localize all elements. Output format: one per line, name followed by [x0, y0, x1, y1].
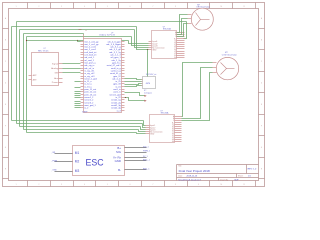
- svg-text:V+ Rx: V+ Rx: [113, 155, 122, 159]
- svg-text:F: F: [261, 125, 262, 127]
- svg-text:H: H: [5, 168, 6, 170]
- svg-text:⌞: ⌞: [51, 152, 52, 154]
- svg-text:M?: M?: [225, 52, 228, 54]
- wire bus b2 bottom: [17, 122, 143, 125]
- svg-text:G1: G1: [174, 47, 176, 49]
- svg-text:3: 3: [61, 184, 62, 186]
- junction h6 to U1: [77, 40, 78, 41]
- wire staircase to U2 inputs: [137, 27, 149, 50]
- svg-text:C: C: [261, 61, 263, 63]
- svg-text:11: 11: [243, 6, 245, 8]
- svg-text:A: A: [5, 17, 6, 20]
- pin marks on bus: [79, 28, 82, 30]
- svg-text:gpio_33: gpio_33: [113, 84, 121, 86]
- svg-text:GND: GND: [52, 170, 57, 172]
- svg-text:G1: G1: [172, 131, 174, 133]
- svg-text:⌞: ⌞: [51, 161, 52, 163]
- wire bus h2 top: [12, 25, 137, 28]
- wire bus v5 left: [25, 37, 28, 133]
- rf receiver U4 body: [32, 53, 59, 86]
- svg-text:D: D: [261, 82, 263, 84]
- svg-text:B+: B+: [117, 146, 121, 150]
- wire bus v3 left: [18, 30, 21, 127]
- svg-text:GND: GND: [152, 50, 157, 52]
- svg-text:2: 2: [38, 6, 39, 8]
- svg-text:io_01: io_01: [116, 86, 122, 88]
- svg-text:M3: M3: [75, 169, 80, 173]
- svg-text:B: B: [261, 39, 262, 41]
- esc unit body: [73, 146, 125, 176]
- svg-text:S1: S1: [172, 127, 174, 129]
- svg-text:8: 8: [175, 6, 176, 8]
- svg-text:M1: M1: [75, 151, 80, 155]
- svg-text:E: E: [261, 104, 262, 106]
- svg-text:6: 6: [130, 6, 131, 8]
- svg-text:sense2_2: sense2_2: [84, 100, 94, 102]
- svg-text:B+: B+: [172, 122, 174, 124]
- wire U2 gnd to gps vcc: [146, 50, 149, 77]
- svg-text:U?: U?: [160, 110, 162, 112]
- svg-text:adc_1_1_3: adc_1_1_3: [110, 55, 121, 57]
- svg-text:gpio_12: gpio_12: [113, 76, 121, 78]
- wire bus h6 top: [27, 39, 129, 42]
- svg-text:sense3_2: sense3_2: [84, 102, 94, 104]
- svg-text:REC TX 4ch: REC TX 4ch: [38, 51, 48, 53]
- wire h6 to U1 pin1: [78, 41, 81, 42]
- svg-text:5V_1: 5V_1: [143, 156, 149, 158]
- svg-text:w0_gpio_1: w0_gpio_1: [111, 57, 122, 59]
- svg-text:U?: U?: [144, 90, 146, 92]
- svg-text:Compass: Compass: [144, 92, 152, 94]
- svg-text:G2: G2: [174, 49, 176, 51]
- svg-text:Sheet:: Sheet:: [238, 175, 244, 178]
- svg-text:GND: GND: [115, 159, 121, 163]
- svg-text:KiCad E.D.A. kicad 4.0.7: KiCad E.D.A. kicad 4.0.7: [178, 178, 202, 181]
- svg-text:⌞: ⌞: [51, 170, 52, 172]
- svg-text:5: 5: [107, 184, 108, 186]
- rf receiver U4 right pins: [59, 62, 63, 65]
- wire U1 left net stubs: [75, 80, 81, 83]
- svg-text:GND: GND: [150, 134, 155, 136]
- svg-text:G: G: [261, 147, 263, 149]
- svg-text:S2: S2: [174, 45, 176, 47]
- svg-text:sense1_2: sense1_2: [84, 97, 94, 99]
- svg-text:U?: U?: [111, 32, 113, 34]
- svg-text:2018-12-16: 2018-12-16: [187, 176, 198, 178]
- wire bus b1 bottom: [12, 119, 144, 122]
- mcu U1 right pins: [122, 40, 125, 43]
- svg-text:io_11_a: io_11_a: [84, 81, 92, 83]
- svg-text:E: E: [5, 104, 6, 106]
- svg-text:ESC: ESC: [86, 157, 105, 167]
- svg-text:D: D: [5, 82, 7, 84]
- svg-text:G4: G4: [172, 141, 174, 143]
- svg-text:G4: G4: [174, 57, 176, 59]
- svg-text:Signal: Signal: [52, 63, 59, 65]
- motor M1 pins: [188, 13, 192, 16]
- svg-text:IOREF: IOREF: [82, 111, 88, 113]
- svg-text:V1: V1: [172, 135, 174, 137]
- wire bus b3 bottom: [20, 125, 141, 128]
- svg-text:io_25: io_25: [116, 81, 122, 83]
- wire esc unit control leads: [125, 146, 147, 149]
- svg-text:B+: B+: [174, 38, 176, 40]
- svg-text:GPS: GPS: [146, 83, 151, 85]
- svg-text:G2: G2: [172, 133, 174, 135]
- mcu U1 left pins: [81, 40, 84, 43]
- svg-text:V2: V2: [172, 137, 174, 139]
- svg-text:S1: S1: [174, 43, 176, 45]
- gps U5 left pins: [142, 78, 143, 81]
- svg-text:adc_3_1_g: adc_3_1_g: [110, 47, 121, 49]
- svg-text:io_12_a: io_12_a: [84, 84, 92, 86]
- svg-text:S2: S2: [172, 129, 174, 131]
- svg-text:H: H: [261, 168, 262, 170]
- svg-text:gpio_8_a: gpio_8_a: [112, 63, 121, 65]
- wire h4 to U1 top pin: [82, 34, 85, 35]
- svg-text:PWM: PWM: [52, 160, 57, 162]
- svg-text:adc_sig_in: adc_sig_in: [84, 65, 95, 67]
- esc controller U3 body+pins: [150, 115, 175, 143]
- svg-text:M2: M2: [75, 160, 80, 164]
- svg-text:sense_1_gnd: sense_1_gnd: [84, 78, 97, 80]
- border frame inner: [9, 9, 259, 181]
- svg-text:F: F: [5, 125, 6, 127]
- wire U1 to compass: [125, 93, 145, 96]
- svg-text:6: 6: [130, 184, 131, 186]
- junction compass: [125, 97, 126, 98]
- esc controller U2 body+pins: [152, 31, 177, 59]
- wire esc unit motor leads: [55, 152, 73, 155]
- svg-text:adc_3_6_Bgpio: adc_3_6_Bgpio: [106, 44, 121, 46]
- svg-text:U?: U?: [163, 26, 165, 28]
- motor M1 star: [196, 13, 201, 26]
- svg-text:B-: B-: [118, 168, 121, 172]
- svg-text:sense1_gnd: sense1_gnd: [109, 94, 121, 96]
- svg-text:BAT+_1: BAT+_1: [143, 159, 151, 162]
- svg-text:Final Year Project 2018: Final Year Project 2018: [179, 169, 210, 173]
- junction h6 start: [26, 40, 27, 41]
- wire bus v1 left: [15, 22, 18, 124]
- svg-text:G3: G3: [172, 139, 174, 141]
- wire bus v2 left: [10, 27, 13, 121]
- svg-text:adc_2_2g: adc_2_2g: [112, 60, 122, 62]
- wire bus b4 bottom: [24, 128, 139, 131]
- svg-text:G3: G3: [174, 55, 176, 57]
- svg-text:adc_4_6_gpio: adc_4_6_gpio: [108, 41, 122, 43]
- wire bus h3 top: [20, 28, 135, 31]
- svg-text:10: 10: [220, 6, 222, 8]
- svg-text:CCW Gearmotor: CCW Gearmotor: [222, 54, 237, 57]
- svg-text:1: 1: [16, 6, 17, 8]
- svg-text:C: C: [5, 61, 7, 63]
- motor M2 body: [216, 57, 238, 79]
- junction U2 gnd: [147, 49, 148, 50]
- svg-text:adc_3_2_1g: adc_3_2_1g: [109, 52, 121, 54]
- svg-text:SIG_1: SIG_1: [143, 146, 150, 148]
- wire h1 drop to U2: [184, 22, 187, 39]
- svg-text:11: 11: [243, 184, 245, 186]
- svg-text:4: 4: [84, 6, 85, 8]
- border zone tick marks: [26, 3, 29, 9]
- svg-text:B: B: [5, 39, 6, 41]
- svg-text:V2: V2: [174, 53, 176, 55]
- mcu U1 body: [84, 39, 122, 113]
- svg-text:1: 1: [16, 184, 17, 186]
- wire bus h1 top: [17, 20, 187, 23]
- svg-text:Title:: Title:: [178, 165, 182, 168]
- svg-text:adc_5_in: adc_5_in: [112, 78, 121, 80]
- wire bus h4 top: [24, 32, 84, 35]
- svg-text:M?: M?: [197, 4, 200, 6]
- svg-text:PWM_1: PWM_1: [143, 151, 151, 153]
- svg-text:SIG: SIG: [116, 150, 122, 154]
- svg-text:io_13_a: io_13_a: [84, 86, 92, 88]
- wire U2 to motor M1 phases: [177, 15, 188, 33]
- svg-text:8: 8: [175, 184, 176, 186]
- border frame outer: [3, 3, 265, 187]
- svg-text:G: G: [5, 147, 7, 149]
- svg-text:adc_3_5_g0: adc_3_5_g0: [109, 49, 121, 51]
- svg-text:V1: V1: [174, 51, 176, 53]
- wire bus h5 top: [27, 35, 132, 38]
- title block frame: [175, 165, 178, 181]
- svg-text:3: 3: [61, 6, 62, 8]
- svg-text:U?: U?: [44, 48, 46, 50]
- wire staircase to U3 inputs: [144, 121, 146, 126]
- svg-text:5: 5: [107, 6, 108, 8]
- rf receiver U4 ant pins: [29, 74, 32, 77]
- svg-text:mosi_gnd_1: mosi_gnd_1: [84, 105, 96, 107]
- svg-text:Ondina To Pin B: Ondina To Pin B: [99, 35, 115, 37]
- svg-text:BAT-_1: BAT-_1: [143, 167, 150, 170]
- svg-text:7: 7: [152, 184, 153, 186]
- svg-text:Drawn By:: Drawn By:: [220, 179, 229, 181]
- compass label arrows: [145, 95, 147, 96]
- svg-text:2: 2: [38, 184, 39, 186]
- motor M1 body: [191, 8, 213, 30]
- svg-text:io_22: io_22: [116, 97, 122, 99]
- svg-text:Date:: Date:: [178, 175, 183, 178]
- wire bus v4 left: [22, 34, 25, 130]
- pin U1 top: [82, 35, 85, 39]
- svg-text:9: 9: [198, 184, 199, 186]
- svg-text:4: 4: [84, 184, 85, 186]
- wire bus b5 bottom: [27, 131, 137, 134]
- svg-text:REV: 1.0: REV: 1.0: [248, 169, 257, 171]
- svg-text:7: 7: [152, 6, 153, 8]
- gps U5 body: [143, 77, 156, 89]
- svg-text:A: A: [261, 17, 262, 20]
- motor M2 star: [221, 63, 227, 75]
- wire U3 to motor M2 phases: [182, 63, 213, 117]
- motor M2 pins: [213, 61, 217, 64]
- wire U4 to U1 signals: [63, 62, 81, 65]
- svg-text:10: 10: [220, 184, 222, 186]
- wire U1 to gps: [125, 79, 142, 80]
